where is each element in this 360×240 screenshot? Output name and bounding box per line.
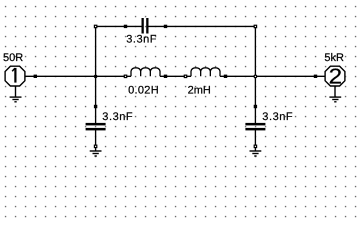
wire: L1 to L2: [160, 75, 191, 77]
wire: left vertical riser x=95.6 (top corner through node to C2): [95, 26, 97, 123]
capacitor C3 3.3nF (right shunt) plates: [245, 123, 265, 130]
pin square: port P1 pin: [34, 75, 37, 78]
wire: L2 to port2: [220, 75, 325, 77]
junction node: left (filled): [94, 75, 98, 79]
inductor L1 0.02H coil: [131, 68, 160, 77]
svg-text:50R: 50R: [3, 52, 23, 64]
svg-text:0.02H: 0.02H: [128, 85, 159, 97]
open pin square: L1 left pin: [124, 75, 126, 77]
open pin square: C3 bottom pin: [254, 145, 256, 147]
pin number 1: [14, 68, 16, 83]
capacitor C2 3.3nF (left shunt) plates: [86, 123, 106, 130]
pin square: C1 left pin: [124, 25, 127, 28]
pin square: C3 top pin: [254, 105, 257, 108]
ground (below C2): [90, 151, 102, 156]
ground (port P2): [329, 86, 341, 102]
svg-text:5kR: 5kR: [324, 52, 344, 64]
svg-text:2mH: 2mH: [188, 85, 211, 97]
wire: left shunt below C2 to ground: [95, 130, 97, 151]
junction node: right (open ring): [254, 75, 257, 78]
svg-text:3.3nF: 3.3nF: [262, 111, 293, 123]
pin square: L2 right pin: [224, 75, 227, 78]
open pin square: L2 left pin: [184, 75, 186, 77]
open pin square: C2 bottom pin: [94, 145, 96, 147]
capacitor C1 3.3nF (series, top) plates: [142, 18, 149, 34]
open pin square: top-left corner node: [94, 25, 96, 27]
pin square: port P2 pin: [314, 75, 317, 78]
port P2 (5kR) octagon: [325, 64, 345, 88]
svg-text:3.3nF: 3.3nF: [126, 34, 157, 46]
open pin square: top-right corner node: [254, 25, 256, 27]
svg-text:3.3nF: 3.3nF: [102, 111, 133, 123]
wire: top branch left segment (to C1 left plate): [96, 25, 143, 27]
wire: port1 to L1 (main net, y=76): [25, 75, 131, 77]
svg-text:2: 2: [329, 64, 343, 88]
inductor L2 2mH coil: [191, 68, 220, 77]
wire: right vertical riser x=255.4 (top corner through node to C3): [254, 26, 256, 123]
ground (below C3): [250, 151, 262, 156]
wire: top branch right segment (C1 right plate to right corner): [147, 25, 255, 27]
ground (port P1): [10, 86, 22, 102]
pin square: C1 right pin: [164, 25, 167, 28]
pin square: C2 top pin: [94, 105, 97, 108]
wire: right shunt below C3 to ground: [254, 130, 256, 151]
port P1 (50R) octagon: [5, 66, 25, 86]
pin square: L1 right pin: [164, 75, 167, 78]
